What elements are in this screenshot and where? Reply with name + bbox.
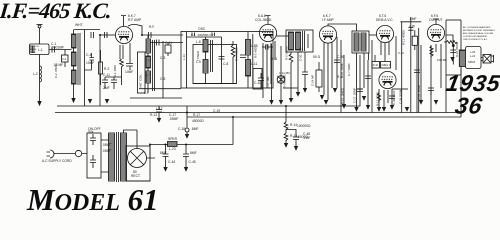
svg-text:C-2: C-2 — [62, 57, 67, 61]
svg-text:C-25 .05MF: C-25 .05MF — [340, 63, 344, 78]
svg-text:C-9 .1MF: C-9 .1MF — [266, 76, 270, 88]
svg-text:L-20: L-20 — [470, 50, 476, 54]
svg-text:L-4: L-4 — [146, 73, 151, 77]
svg-text:R-19 .3MEG: R-19 .3MEG — [341, 87, 345, 104]
svg-text:L-13: L-13 — [182, 54, 186, 60]
svg-text:.1MF: .1MF — [303, 136, 311, 140]
svg-text:.0001MF: .0001MF — [51, 46, 64, 50]
svg-text:LINE VOLTAGE 117V. A.C.: LINE VOLTAGE 117V. A.C. — [463, 38, 488, 41]
svg-text:R-5 40000: R-5 40000 — [254, 44, 258, 58]
svg-text:C-27 .05MF: C-27 .05MF — [353, 88, 357, 103]
svg-text:C-24 MF: C-24 MF — [311, 75, 315, 86]
svg-text:WAVE: WAVE — [30, 48, 37, 51]
svg-text:.05MF: .05MF — [102, 149, 111, 153]
svg-text:R-2: R-2 — [104, 67, 109, 71]
svg-text:WHT.: WHT. — [75, 23, 83, 27]
svg-text:1MEG Ω: 1MEG Ω — [381, 64, 390, 67]
svg-text:50 Ω: 50 Ω — [313, 55, 321, 59]
svg-text:.00025MF C-7: .00025MF C-7 — [197, 33, 214, 37]
svg-text:10MF: 10MF — [125, 70, 133, 74]
svg-text:A.C SUPPLY CORD: A.C SUPPLY CORD — [42, 159, 72, 163]
svg-text:R-1 4000: R-1 4000 — [113, 65, 117, 77]
svg-text:.05MF: .05MF — [102, 143, 111, 147]
svg-text:COL./MOD.: COL./MOD. — [255, 18, 272, 22]
svg-text:DEM.A.V.C.: DEM.A.V.C. — [376, 18, 394, 22]
svg-text:C-40 40MF: C-40 40MF — [392, 90, 396, 105]
svg-text:OUTPUT: OUTPUT — [429, 18, 443, 22]
svg-text:C-31: C-31 — [398, 51, 404, 55]
svg-text:.05MF: .05MF — [169, 117, 178, 121]
svg-text:C-8: C-8 — [223, 62, 228, 66]
svg-text:I.F AMP: I.F AMP — [322, 18, 335, 22]
svg-text:C-11: C-11 — [103, 73, 110, 77]
svg-text:.6MF: .6MF — [409, 17, 417, 21]
svg-text:8MF: 8MF — [190, 151, 197, 155]
svg-text:R.F AMP: R.F AMP — [128, 18, 142, 22]
svg-text:.8MF: .8MF — [191, 127, 199, 131]
svg-text:C-39 .05MF: C-39 .05MF — [417, 85, 421, 100]
svg-text:R-11 40000: R-11 40000 — [402, 30, 406, 45]
svg-text:L-23: L-23 — [169, 147, 176, 151]
svg-text:C-44: C-44 — [168, 160, 175, 164]
svg-text:C-38 500M: C-38 500M — [399, 89, 403, 104]
svg-text:2MF: 2MF — [103, 86, 110, 90]
svg-text:C-18: C-18 — [178, 127, 185, 131]
svg-text:ANT. COIL: ANT. COIL — [139, 74, 143, 88]
svg-text:AND CHASSIS BASE. VOLUME: AND CHASSIS BASE. VOLUME — [463, 32, 494, 35]
svg-text:R-6 90000: R-6 90000 — [235, 47, 239, 61]
svg-text:L-8: L-8 — [196, 40, 201, 44]
svg-text:8MF: 8MF — [160, 151, 167, 155]
svg-text:TRAP: TRAP — [30, 51, 36, 54]
svg-text:RECT.: RECT. — [131, 174, 141, 178]
svg-text:C-4: C-4 — [86, 53, 91, 57]
svg-text:C-19: C-19 — [213, 109, 220, 113]
svg-text:C-20 .1MF: C-20 .1MF — [299, 47, 303, 61]
svg-text:TUNED: TUNED — [196, 51, 200, 61]
svg-text:C-35: C-35 — [409, 24, 415, 28]
svg-text:36: 36 — [453, 93, 485, 119]
svg-text:C-2 .05MF: C-2 .05MF — [54, 64, 58, 78]
svg-text:L-2: L-2 — [33, 72, 38, 76]
svg-text:L-21: L-21 — [470, 54, 476, 58]
svg-text:SW: SW — [88, 130, 94, 134]
svg-text:10 Ω: 10 Ω — [270, 57, 278, 61]
svg-text:R-16 25000: R-16 25000 — [455, 42, 459, 57]
svg-text:C-5: C-5 — [160, 77, 165, 81]
svg-text:C-10: C-10 — [254, 81, 261, 85]
svg-text:45000Ω: 45000Ω — [192, 119, 204, 123]
svg-text:I.F.=465 K.C.: I.F.=465 K.C. — [0, 0, 113, 23]
svg-text:SPKR: SPKR — [468, 60, 475, 64]
svg-text:L-3: L-3 — [146, 58, 151, 62]
svg-text:L-1: L-1 — [38, 48, 43, 52]
svg-text:CONTROL AT MAXIMUM.: CONTROL AT MAXIMUM. — [463, 35, 488, 38]
svg-text:10MF: 10MF — [86, 61, 94, 65]
svg-text:10Ω MF: 10Ω MF — [437, 58, 447, 62]
svg-text:R-17: R-17 — [193, 113, 200, 117]
svg-text:C-3: C-3 — [160, 56, 165, 60]
svg-text:R.F.: R.F. — [149, 25, 155, 29]
svg-text:OSC: OSC — [198, 27, 206, 31]
svg-text:R-2 50000: R-2 50000 — [285, 46, 289, 60]
svg-text:C-6: C-6 — [191, 33, 196, 37]
svg-text:C-? 30MF: C-? 30MF — [347, 63, 351, 76]
svg-text:100000Ω: 100000Ω — [297, 124, 311, 128]
svg-text:R-13: R-13 — [150, 113, 157, 117]
svg-text:C-41: C-41 — [165, 41, 172, 45]
svg-text:R-15: R-15 — [290, 134, 297, 138]
svg-text:L-11: L-11 — [251, 62, 258, 66]
svg-text:C-26: C-26 — [337, 55, 344, 59]
svg-text:SPKR: SPKR — [168, 137, 178, 141]
svg-text:R-12 5000: R-12 5000 — [376, 92, 380, 106]
svg-text:R-3 2MEG: R-3 2MEG — [283, 74, 287, 88]
svg-text:L-17: L-17 — [156, 107, 163, 111]
svg-text:C-45: C-45 — [189, 160, 196, 164]
svg-text:R-10: R-10 — [373, 64, 379, 67]
svg-text:BETWEEN SOCKET TERMINALS: BETWEEN SOCKET TERMINALS — [463, 29, 495, 32]
svg-text:L-7: L-7 — [144, 91, 149, 95]
svg-text:ALL VOLTAGES MEASURED: ALL VOLTAGES MEASURED — [463, 26, 491, 29]
